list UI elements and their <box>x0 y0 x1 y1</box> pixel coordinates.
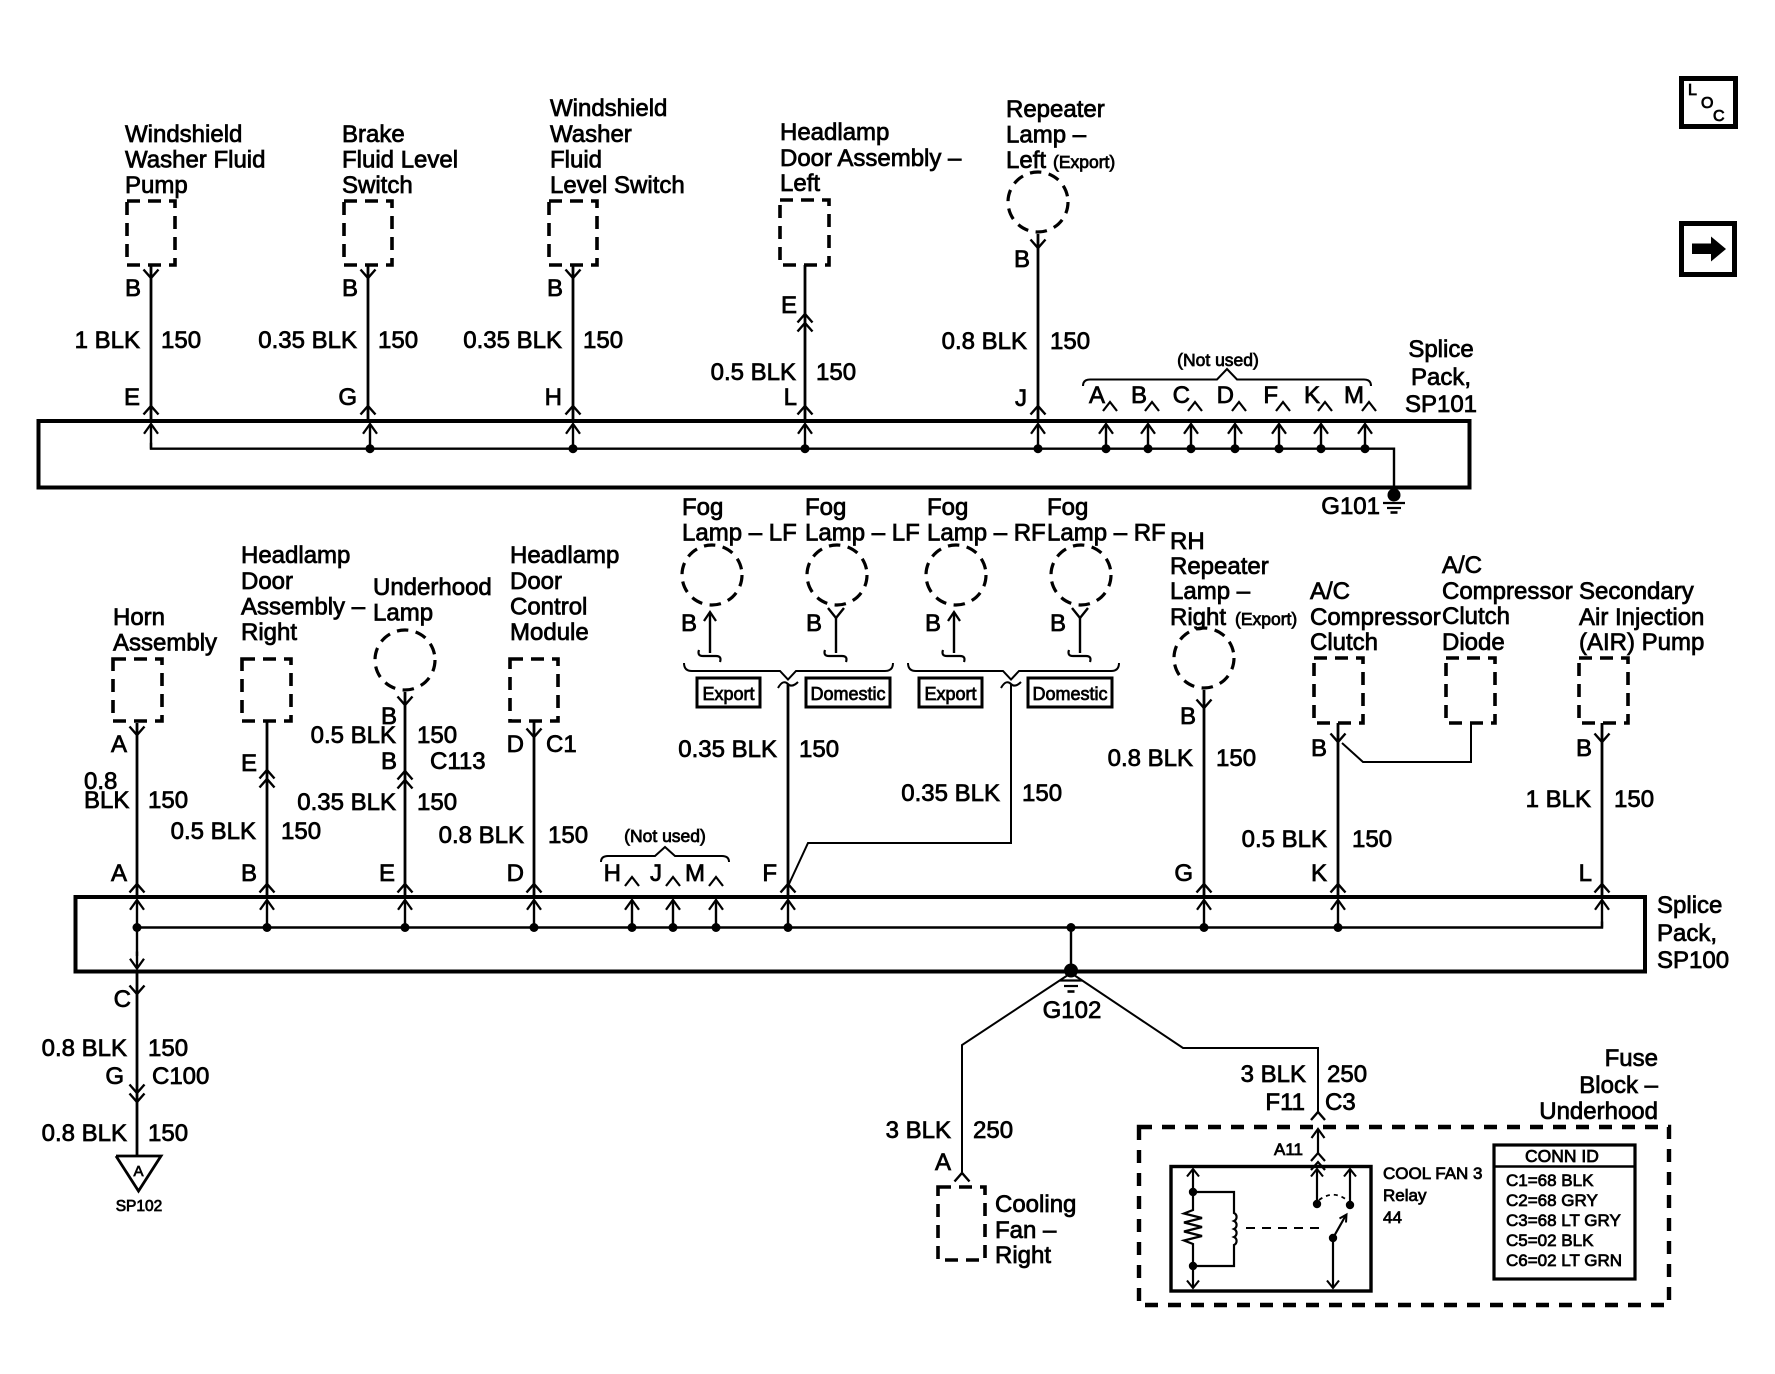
svg-text:G101: G101 <box>1321 493 1380 520</box>
svg-text:B: B <box>547 275 563 302</box>
svg-text:0.8 BLK: 0.8 BLK <box>942 328 1027 355</box>
lamp: Repeater Lamp - Left (Export) <box>1006 96 1115 232</box>
svg-text:Export: Export <box>702 684 754 704</box>
svg-text:150: 150 <box>161 327 201 354</box>
svg-text:Fog: Fog <box>682 494 723 521</box>
svg-text:Windshield: Windshield <box>125 121 242 148</box>
svg-text:G: G <box>105 1063 124 1090</box>
svg-text:0.35 BLK: 0.35 BLK <box>463 327 562 354</box>
fog lamp RF domestic pin B connector <box>1050 608 1091 662</box>
svg-text:E: E <box>241 750 257 777</box>
svg-text:C3=68 LT GRY: C3=68 LT GRY <box>1506 1211 1621 1230</box>
svg-text:0.8 BLK: 0.8 BLK <box>1108 745 1193 772</box>
SP101 not-used pin F <box>1263 382 1290 453</box>
svg-text:Clutch: Clutch <box>1442 603 1510 630</box>
svg-text:Right: Right <box>995 1242 1051 1269</box>
relay resistor <box>1184 1192 1202 1266</box>
svg-text:F11: F11 <box>1265 1089 1305 1116</box>
svg-text:Control: Control <box>510 594 587 621</box>
svg-text:Headlamp: Headlamp <box>510 542 619 569</box>
brace: fog lamp LF pair selector <box>684 663 893 680</box>
SP101 not-used pin A <box>1089 382 1117 453</box>
svg-text:250: 250 <box>1327 1061 1367 1088</box>
label: (Not used) bracket over SP100 pins H J M <box>601 826 729 862</box>
fog lamp LF export pin B arrow <box>681 610 721 662</box>
wire: A/C clutch B to SP100 K, 0.5 BLK 150 <box>1242 723 1392 897</box>
svg-text:B: B <box>241 860 257 887</box>
svg-text:J: J <box>650 860 662 887</box>
svg-text:Switch: Switch <box>342 172 413 199</box>
svg-text:Right: Right <box>241 619 297 646</box>
svg-text:Lamp –: Lamp – <box>1170 578 1251 605</box>
svg-text:150: 150 <box>583 327 623 354</box>
lamp: Fog Lamp - LF (Export) <box>682 494 797 605</box>
svg-text:150: 150 <box>816 359 856 386</box>
label box: Domestic (RF) <box>1028 678 1112 707</box>
svg-text:1 BLK: 1 BLK <box>1526 786 1591 813</box>
svg-text:150: 150 <box>148 1035 188 1062</box>
svg-text:Left: Left <box>780 170 820 197</box>
svg-text:L: L <box>1688 82 1697 99</box>
svg-text:RH: RH <box>1170 528 1205 555</box>
svg-text:A: A <box>133 1163 143 1180</box>
relay coil bottom arrow <box>1187 1266 1199 1288</box>
svg-text:150: 150 <box>548 822 588 849</box>
svg-text:Fan –: Fan – <box>995 1217 1057 1244</box>
svg-text:150: 150 <box>1022 780 1062 807</box>
svg-text:Repeater: Repeater <box>1170 553 1269 580</box>
svg-text:Assembly –: Assembly – <box>241 594 366 621</box>
svg-text:Air Injection: Air Injection <box>1579 604 1704 631</box>
svg-text:250: 250 <box>973 1117 1013 1144</box>
svg-text:0.5 BLK: 0.5 BLK <box>1242 826 1327 853</box>
SP101 pin L bus arrow <box>798 424 812 453</box>
wire: G102 to Fuse Block F11 C3, 3 BLK 250 <box>1071 973 1367 1120</box>
svg-text:3 BLK: 3 BLK <box>1241 1061 1306 1088</box>
svg-text:A: A <box>111 731 127 758</box>
svg-text:Repeater: Repeater <box>1006 96 1105 123</box>
svg-text:B: B <box>342 275 358 302</box>
svg-text:C: C <box>114 986 131 1013</box>
SP101 pin G bus arrow <box>363 424 377 453</box>
svg-text:B: B <box>1180 703 1196 730</box>
SP100 pin A pass-through to pin C below <box>130 928 144 969</box>
svg-text:Headlamp: Headlamp <box>241 542 350 569</box>
wire: diode to A/C clutch wire <box>1342 723 1471 762</box>
lamp: Fog Lamp - RF (Export) <box>926 494 1046 605</box>
svg-text:B: B <box>806 610 822 637</box>
svg-text:Compressor: Compressor <box>1442 578 1573 605</box>
svg-text:C2=68 GRY: C2=68 GRY <box>1506 1191 1598 1210</box>
svg-text:B: B <box>1131 382 1147 409</box>
wire: headlamp door right E via connector to SP100 B, 0.5 BLK 150 <box>171 721 321 897</box>
wire: repeater lamp left B to SP101 J, 0.8 BLK 150 <box>942 234 1090 421</box>
svg-text:C5=02 BLK: C5=02 BLK <box>1506 1231 1594 1250</box>
lamp: RH Repeater Lamp - Right (Export) <box>1170 528 1297 688</box>
svg-text:Washer Fluid: Washer Fluid <box>125 147 265 174</box>
svg-text:1 BLK: 1 BLK <box>75 327 140 354</box>
icon: LOC reference box <box>1682 79 1736 127</box>
svg-text:B: B <box>125 275 141 302</box>
svg-text:0.5 BLK: 0.5 BLK <box>711 359 796 386</box>
SP101 pin H bus arrow <box>566 424 580 453</box>
svg-text:G: G <box>1174 860 1193 887</box>
brace: fog lamp RF pair selector <box>908 663 1119 680</box>
svg-text:Washer: Washer <box>550 121 632 148</box>
SP100 not-used pin H <box>604 860 639 887</box>
fog lamp RF export pin B arrow <box>925 610 965 662</box>
svg-text:(Export): (Export) <box>1235 609 1297 629</box>
splice pack SP100 box <box>76 897 1646 972</box>
svg-text:0.5 BLK: 0.5 BLK <box>311 722 396 749</box>
svg-text:Underhood: Underhood <box>1539 1098 1658 1125</box>
SP100 not-used pin J <box>650 860 680 887</box>
SP101 not-used pin K <box>1304 382 1332 453</box>
svg-text:0.8 BLK: 0.8 BLK <box>42 1035 127 1062</box>
svg-text:Clutch: Clutch <box>1310 629 1378 656</box>
svg-text:Lamp –: Lamp – <box>1006 122 1087 149</box>
svg-text:M: M <box>685 860 705 887</box>
svg-text:L: L <box>784 384 797 411</box>
svg-text:Horn: Horn <box>113 604 165 631</box>
svg-text:B: B <box>681 610 697 637</box>
svg-text:Fog: Fog <box>927 494 968 521</box>
splice SP102 symbol <box>116 1156 163 1215</box>
connector: Brake Fluid Level Switch <box>342 121 458 265</box>
splice pack SP101 box <box>39 421 1470 488</box>
fog lamp LF domestic pin B connector <box>806 608 847 662</box>
connector: Headlamp Door Control Module <box>510 542 619 721</box>
svg-text:Secondary: Secondary <box>1579 578 1694 605</box>
connector: Secondary Air Injection (AIR) Pump <box>1579 578 1704 723</box>
relay coil (inductor) <box>1189 1192 1237 1270</box>
svg-text:B: B <box>1311 735 1327 762</box>
svg-text:H: H <box>545 384 562 411</box>
svg-text:Domestic: Domestic <box>1032 684 1107 704</box>
connector: Headlamp Door Assembly - Right <box>241 542 366 721</box>
svg-text:D: D <box>507 860 524 887</box>
SP101 not-used pin C <box>1173 382 1202 453</box>
svg-text:F: F <box>1263 382 1278 409</box>
svg-text:150: 150 <box>148 787 188 814</box>
svg-text:Export: Export <box>924 684 976 704</box>
svg-text:0.35 BLK: 0.35 BLK <box>901 780 1000 807</box>
svg-text:Relay: Relay <box>1383 1186 1427 1205</box>
svg-text:Door: Door <box>241 568 293 595</box>
svg-text:Fog: Fog <box>805 494 846 521</box>
SP101 not-used pin B <box>1131 382 1159 453</box>
svg-text:Compressor: Compressor <box>1310 604 1441 631</box>
relay switch blade <box>1329 1215 1347 1243</box>
wire: headlamp door left E via connector to SP101 L, 0.5 BLK 150 <box>711 265 856 421</box>
svg-text:G: G <box>338 384 357 411</box>
relay coil-to-switch dashed link <box>1246 1227 1326 1229</box>
svg-text:(Not used): (Not used) <box>624 826 706 846</box>
svg-text:Pack,: Pack, <box>1657 920 1717 947</box>
svg-text:Splice: Splice <box>1408 336 1473 363</box>
SP100 pin D bus arrow <box>527 900 541 932</box>
svg-text:Fog: Fog <box>1047 494 1088 521</box>
svg-text:0.5 BLK: 0.5 BLK <box>171 818 256 845</box>
wire: fog lamps RF join at pin F, 0.35 BLK 150 <box>789 682 1062 884</box>
svg-text:150: 150 <box>1216 745 1256 772</box>
wire: SP100 C through C100 to splice SP102, 0.8 BLK 150 <box>42 974 210 1157</box>
svg-text:SP101: SP101 <box>1405 391 1477 418</box>
svg-text:CONN ID: CONN ID <box>1525 1146 1599 1166</box>
svg-text:Door Assembly –: Door Assembly – <box>780 145 962 172</box>
label box: Export (RF) <box>919 678 982 707</box>
connector: Headlamp Door Assembly - Left <box>780 119 962 265</box>
relay: COOL FAN 3 Relay 44 box <box>1171 1164 1483 1291</box>
lamp: Fog Lamp - LF (Domestic) <box>805 494 920 605</box>
svg-text:L: L <box>1579 860 1592 887</box>
svg-text:A: A <box>935 1149 951 1176</box>
svg-text:M: M <box>1344 382 1364 409</box>
wire: washer level switch B to SP101 H, 0.35 BLK 150 <box>463 266 623 421</box>
svg-text:G102: G102 <box>1043 997 1102 1024</box>
svg-text:COOL FAN 3: COOL FAN 3 <box>1383 1164 1483 1183</box>
wire: RH repeater B to SP100 G, 0.8 BLK 150 <box>1108 690 1256 897</box>
svg-text:D: D <box>507 731 524 758</box>
svg-text:Splice: Splice <box>1657 892 1722 919</box>
svg-text:Pack,: Pack, <box>1411 364 1471 391</box>
wire: module D (C1) to SP100 D, 0.8 BLK 150 <box>439 721 588 897</box>
SP100 pin E bus arrow <box>398 900 412 932</box>
svg-text:K: K <box>1304 382 1320 409</box>
svg-text:0.8 BLK: 0.8 BLK <box>42 1120 127 1147</box>
SP100 pin J bus arrow <box>666 900 680 932</box>
svg-text:C113: C113 <box>430 748 486 775</box>
label: Fuse Block - Underhood <box>1539 1045 1658 1125</box>
relay switch terminal 1 (top) arrow <box>1311 1169 1323 1208</box>
svg-text:Lamp – LF: Lamp – LF <box>805 520 920 547</box>
wire: G102 to Cooling Fan Right, 3 BLK 250 <box>886 973 1071 1182</box>
SP100 pin B bus arrow <box>260 900 274 932</box>
svg-text:Underhood: Underhood <box>373 574 492 601</box>
svg-text:Windshield: Windshield <box>550 95 667 122</box>
relay switch bottom arrow <box>1327 1238 1339 1288</box>
svg-text:SP100: SP100 <box>1657 947 1729 974</box>
svg-text:150: 150 <box>417 722 457 749</box>
SP101 not-used pin M <box>1344 382 1376 453</box>
svg-text:Door: Door <box>510 568 562 595</box>
svg-text:Fluid: Fluid <box>550 147 602 174</box>
svg-text:(Not used): (Not used) <box>1177 350 1259 370</box>
wire: brake switch B to SP101 G, 0.35 BLK 150 <box>258 266 418 421</box>
svg-text:B: B <box>1014 246 1030 273</box>
svg-text:3 BLK: 3 BLK <box>886 1117 951 1144</box>
SP101 not-used pin D <box>1217 382 1246 453</box>
fuse block terminal A11 entry <box>1274 1129 1325 1170</box>
svg-text:F: F <box>762 860 777 887</box>
svg-text:0.35 BLK: 0.35 BLK <box>678 736 777 763</box>
relay coil terminal (top-left) arrow <box>1187 1169 1199 1196</box>
svg-text:C1=68 BLK: C1=68 BLK <box>1506 1171 1594 1190</box>
svg-text:44: 44 <box>1383 1208 1402 1227</box>
wire: pump B to SP101 E, 1 BLK 150 <box>75 266 201 421</box>
wire: AIR pump B to SP100 L, 1 BLK 150 <box>1526 723 1654 897</box>
svg-text:A/C: A/C <box>1310 578 1350 605</box>
svg-text:Level Switch: Level Switch <box>550 172 685 199</box>
connector: A/C Compressor Clutch Diode <box>1442 552 1573 723</box>
SP101 internal bus wire <box>151 443 1394 490</box>
svg-text:A: A <box>1089 382 1105 409</box>
connector: Windshield Washer Fluid Level Switch <box>549 95 685 265</box>
label: (Not used) bracket over SP101 pins A B C D F K M <box>1083 350 1371 386</box>
svg-text:C100: C100 <box>152 1063 209 1090</box>
svg-text:Headlamp: Headlamp <box>780 119 889 146</box>
svg-text:150: 150 <box>417 789 457 816</box>
svg-text:150: 150 <box>378 327 418 354</box>
svg-text:C: C <box>1173 382 1190 409</box>
SP100 pin A bus arrow <box>130 900 144 932</box>
SP100 internal bus wire <box>137 922 1602 928</box>
svg-text:B: B <box>381 748 397 775</box>
svg-text:Pump: Pump <box>125 172 188 199</box>
svg-text:Lamp – LF: Lamp – LF <box>682 520 797 547</box>
wire: underhood lamp B via C113 to SP100 E, 0.5/0.35 BLK 150 <box>297 692 485 897</box>
label: Splice Pack, SP101 <box>1405 336 1477 418</box>
svg-text:SP102: SP102 <box>116 1198 163 1215</box>
lamp: Fog Lamp - RF (Domestic) <box>1047 494 1166 605</box>
connector: A/C Compressor Clutch <box>1310 578 1441 723</box>
SP101 pin J bus arrow <box>1031 424 1045 453</box>
svg-text:Lamp – RF: Lamp – RF <box>1047 520 1166 547</box>
icon: next-page arrow box <box>1682 224 1735 275</box>
svg-text:J: J <box>1015 385 1027 412</box>
svg-text:Fuse: Fuse <box>1605 1045 1658 1072</box>
svg-text:C: C <box>1713 108 1725 125</box>
svg-text:C1: C1 <box>546 731 577 758</box>
svg-text:150: 150 <box>148 1120 188 1147</box>
svg-text:O: O <box>1701 95 1713 112</box>
svg-text:BLK: BLK <box>84 787 129 814</box>
svg-text:A11: A11 <box>1274 1140 1303 1159</box>
SP100 not-used pin M <box>685 860 723 887</box>
table: CONN ID <box>1494 1145 1635 1279</box>
relay switch dashed throw arc <box>1319 1195 1348 1201</box>
label: Splice Pack, SP100 <box>1657 892 1729 974</box>
SP100 pin G bus arrow <box>1197 900 1211 932</box>
svg-text:(Export): (Export) <box>1053 152 1115 172</box>
svg-text:Lamp: Lamp <box>373 600 433 627</box>
svg-text:(AIR) Pump: (AIR) Pump <box>1579 629 1704 656</box>
label box: Domestic (LF) <box>806 678 890 707</box>
lamp: Underhood Lamp <box>373 574 492 690</box>
connector: Windshield Washer Fluid Pump <box>125 121 265 265</box>
label box: Export (LF) <box>697 678 760 707</box>
svg-text:A/C: A/C <box>1442 552 1482 579</box>
svg-text:Fluid Level: Fluid Level <box>342 147 458 174</box>
svg-text:B: B <box>1050 610 1066 637</box>
svg-text:B: B <box>925 610 941 637</box>
svg-text:D: D <box>1217 382 1234 409</box>
svg-text:0.35 BLK: 0.35 BLK <box>258 327 357 354</box>
svg-text:Lamp – RF: Lamp – RF <box>927 520 1046 547</box>
SP100 pin M bus arrow <box>709 900 723 932</box>
svg-text:C6=02 LT GRN: C6=02 LT GRN <box>1506 1251 1622 1270</box>
svg-text:Assembly: Assembly <box>113 630 217 657</box>
svg-text:Cooling: Cooling <box>995 1191 1076 1218</box>
ground G102 node on SP100 bus <box>1043 923 1102 1024</box>
svg-text:Domestic: Domestic <box>810 684 885 704</box>
svg-text:150: 150 <box>1614 786 1654 813</box>
svg-text:150: 150 <box>1050 328 1090 355</box>
svg-text:A: A <box>111 860 127 887</box>
connector: Cooling Fan - Right <box>938 1187 1076 1269</box>
svg-text:Brake: Brake <box>342 121 405 148</box>
svg-text:E: E <box>124 384 140 411</box>
ground G101 <box>1321 489 1405 521</box>
SP100 pin K bus arrow <box>1331 900 1345 932</box>
SP100 pin F bus arrow <box>781 900 795 932</box>
wire: fog lamps LF to SP100 F, 0.35 BLK 150 <box>678 682 839 897</box>
relay switch terminal 2 (top) arrow <box>1344 1169 1356 1209</box>
fuse block underhood dashed box <box>1139 1127 1669 1305</box>
svg-text:0.8 BLK: 0.8 BLK <box>439 822 524 849</box>
svg-text:Block –: Block – <box>1579 1072 1658 1099</box>
connector: Horn Assembly <box>113 604 217 721</box>
svg-text:C3: C3 <box>1325 1089 1356 1116</box>
SP101 pin E bus arrow <box>144 424 158 449</box>
svg-text:Module: Module <box>510 619 589 646</box>
svg-text:150: 150 <box>1352 826 1392 853</box>
svg-text:150: 150 <box>799 736 839 763</box>
SP100 pin L bus arrow <box>1595 900 1609 928</box>
svg-text:0.35 BLK: 0.35 BLK <box>297 789 396 816</box>
wire: horn A to SP100 A, 0.8 BLK 150 <box>84 723 188 897</box>
svg-text:Diode: Diode <box>1442 629 1505 656</box>
svg-text:E: E <box>379 860 395 887</box>
svg-text:Left: Left <box>1006 147 1046 174</box>
SP100 pin H bus arrow <box>625 900 639 932</box>
svg-text:B: B <box>1576 735 1592 762</box>
svg-text:E: E <box>781 292 797 319</box>
svg-text:150: 150 <box>281 818 321 845</box>
svg-text:K: K <box>1311 860 1327 887</box>
svg-text:H: H <box>604 860 621 887</box>
